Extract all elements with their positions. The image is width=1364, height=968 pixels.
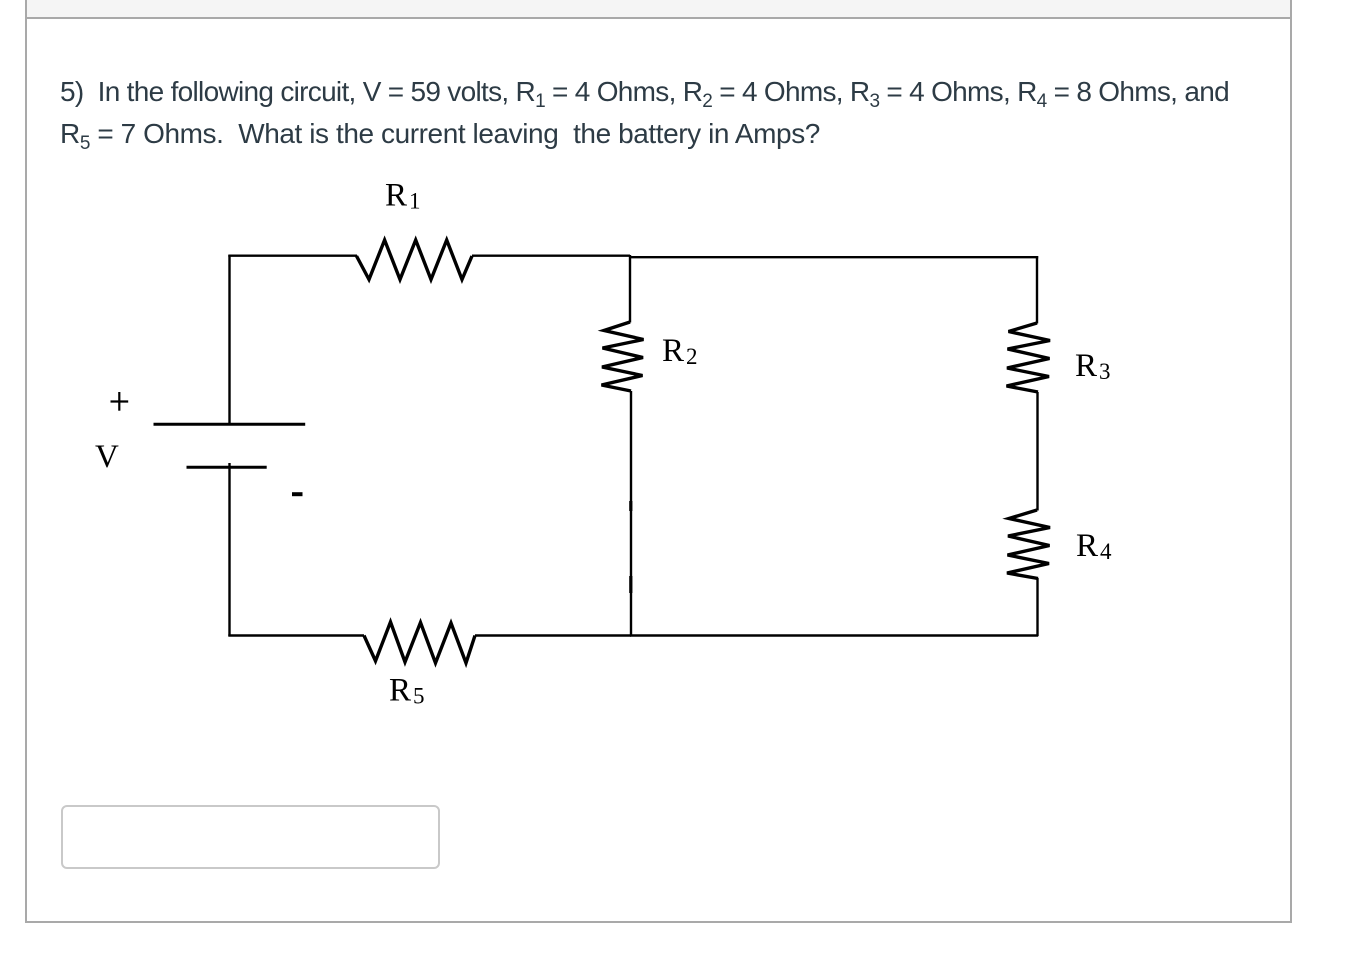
wire: R2 branch lower (R2 to node B) xyxy=(630,391,632,636)
wire: top-left horizontal (left corner to R1) xyxy=(228,254,357,256)
resistor R3 xyxy=(1007,323,1051,392)
label R1 xyxy=(385,178,421,214)
label - (battery negative) xyxy=(292,492,303,496)
resistor R5 xyxy=(364,622,475,663)
svg-text:4: 4 xyxy=(1100,539,1112,564)
svg-text:R: R xyxy=(385,178,407,214)
svg-text:1: 1 xyxy=(409,189,421,214)
wire: right branch upper (right corner to R3) xyxy=(1036,256,1038,324)
svg-text:R: R xyxy=(1075,348,1097,384)
svg-text:R: R xyxy=(1076,528,1098,564)
resistor R2 xyxy=(602,322,644,391)
battery V: positive plate xyxy=(154,423,306,426)
svg-text:2: 2 xyxy=(686,344,698,369)
label R3 xyxy=(1075,348,1111,384)
frame bottom rule xyxy=(25,921,1292,923)
top light-gray strip xyxy=(27,0,1290,17)
svg-text:R: R xyxy=(662,333,684,369)
battery V: negative plate xyxy=(187,466,267,469)
wire: right branch lower (R4 to bottom corner) xyxy=(1036,578,1038,636)
wire: bottom left (corner to R5) xyxy=(228,634,364,636)
svg-text:V: V xyxy=(95,439,119,475)
wire: bottom right (node B to right corner) xyxy=(630,634,1038,636)
wire: left branch lower (battery - to bottom-left corner) xyxy=(228,463,230,636)
wire: R2 branch upper (node A to R2) xyxy=(629,255,631,323)
question text xyxy=(60,71,1320,155)
wire: right branch middle (R3 to R4) xyxy=(1036,392,1038,511)
svg-text:5: 5 xyxy=(413,684,425,709)
frame left border xyxy=(25,0,27,923)
label R2 xyxy=(662,333,698,369)
resistor R4 xyxy=(1007,510,1050,579)
frame right border xyxy=(1290,0,1292,923)
wire: top middle (R1 to node A) xyxy=(472,254,630,256)
label R5 xyxy=(389,673,425,709)
wire: bottom middle (R5 to node B) xyxy=(475,634,631,636)
label R4 xyxy=(1076,528,1112,564)
svg-text:R: R xyxy=(389,673,411,709)
answer input box xyxy=(61,805,440,869)
wire: left branch upper (top-left corner to battery +) xyxy=(228,255,230,423)
junction nub on R2 branch wire (upper) xyxy=(629,501,632,511)
label V (battery) xyxy=(95,439,119,475)
resistor R1 xyxy=(357,240,473,280)
junction nub on R2 branch wire (lower) xyxy=(629,576,632,593)
frame top rule xyxy=(25,17,1292,19)
wire: top right (node A to right corner) xyxy=(629,256,1038,258)
svg-text:3: 3 xyxy=(1099,359,1111,384)
label + (battery positive) xyxy=(111,392,129,411)
